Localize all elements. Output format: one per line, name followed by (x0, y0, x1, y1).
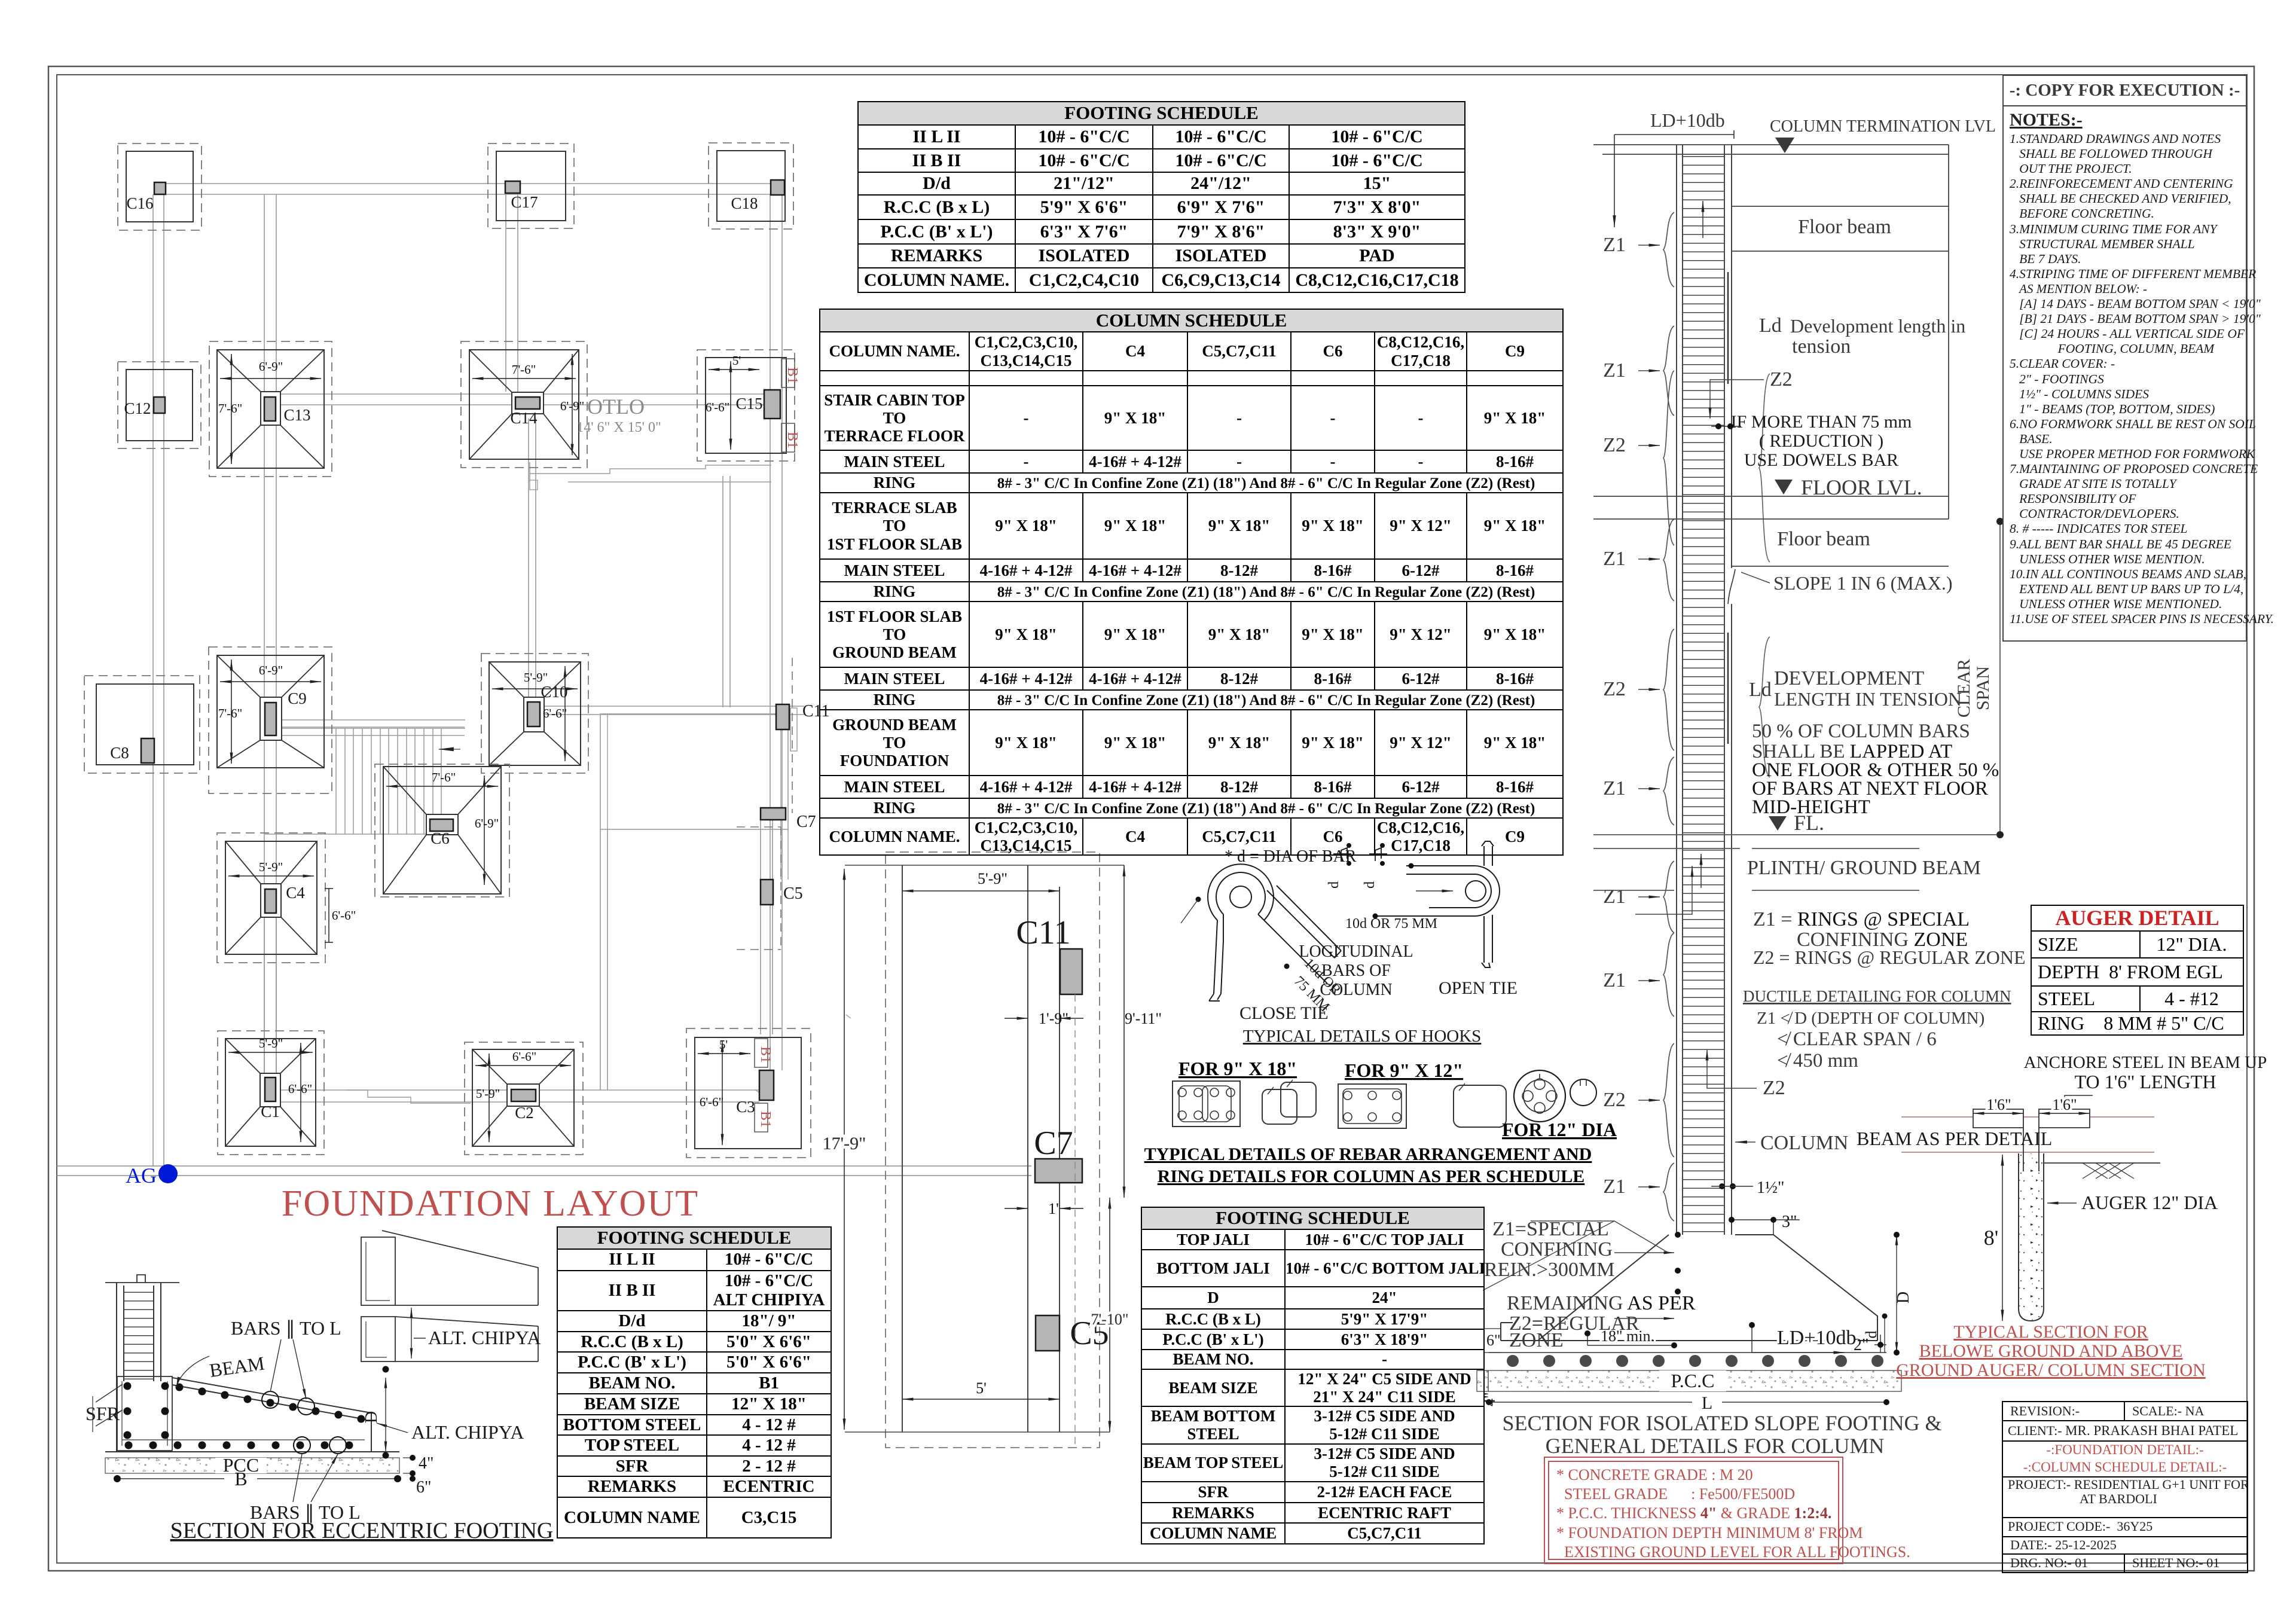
Ld development length upper (1759, 374, 1770, 562)
svg-text:d: d (1326, 881, 1342, 889)
svg-text:PLINTH/ GROUND BEAM: PLINTH/ GROUND BEAM (1747, 857, 1981, 879)
dim 1ft6 right (2039, 1113, 2090, 1114)
wall right of room below C7 (761, 820, 773, 1034)
svg-text:ANCHORE STEEL IN BEAM UP: ANCHORE STEEL IN BEAM UP (2024, 1053, 2267, 1072)
svg-text:d: d (1362, 881, 1378, 889)
zone brace Z2 (1663, 371, 1674, 545)
typical section for auger red title (1877, 1323, 2224, 1380)
svg-text:D: D (1894, 1292, 1913, 1304)
zone brace Z1 sixth (1663, 861, 1674, 933)
svg-text:P.C.C: P.C.C (1671, 1370, 1715, 1391)
footing C13 (isolated sloped footing plan) (209, 341, 332, 477)
alt chipya wedge detail (361, 1237, 395, 1305)
svg-text:COLUMN: COLUMN (1320, 981, 1392, 999)
footing 3in step dim (1732, 1220, 1800, 1235)
footing schedule table (raft C5,C7,C11) (1141, 1207, 1485, 1544)
svg-text:BEAM AS PER DETAIL: BEAM AS PER DETAIL (1857, 1128, 2052, 1149)
svg-text:FOR 9" X 18": FOR 9" X 18" (1178, 1058, 1297, 1079)
svg-text:Z2: Z2 (1770, 368, 1793, 390)
svg-text:IF MORE THAN 75 mm: IF MORE THAN 75 mm (1731, 412, 1912, 432)
auger pile (2019, 1153, 2044, 1321)
svg-text:Z1 ≮ D (DEPTH OF COLUMN): Z1 ≮ D (DEPTH OF COLUMN) (1757, 1009, 1984, 1028)
raft strip bottom line (845, 1431, 1110, 1433)
beam B1 marks at C3 (755, 1039, 773, 1132)
svg-text:C3: C3 (736, 1098, 755, 1116)
footing C9 (isolated sloped footing plan) (209, 647, 332, 793)
svg-text:Floor beam: Floor beam (1798, 216, 1891, 238)
rebar detail for 12in dia (1514, 1070, 1565, 1122)
svg-text:ZONE: ZONE (1509, 1329, 1564, 1351)
svg-text:Z1 = RINGS @ SPECIAL: Z1 = RINGS @ SPECIAL (1753, 908, 1970, 930)
svg-text:B1: B1 (758, 1046, 773, 1063)
footing C1 (isolated sloped footing plan) (218, 1031, 324, 1155)
svg-text:6'-6": 6'-6" (700, 1095, 723, 1109)
svg-text:C4: C4 (286, 884, 305, 902)
svg-text:6'-9": 6'-9" (259, 359, 283, 374)
wall line top row C16-C17-C18 (165, 184, 770, 194)
FL marker (1769, 816, 1787, 831)
staircase (265, 720, 465, 834)
svg-text:REIN.>300MM: REIN.>300MM (1484, 1259, 1614, 1281)
column elevation rails (1677, 145, 1732, 1235)
svg-text:9'-11": 9'-11" (1125, 1010, 1162, 1027)
dim 5-9 strip top (902, 890, 1060, 892)
floor beam 2 (1732, 566, 1949, 567)
svg-text:Z2: Z2 (1603, 678, 1626, 700)
svg-text:B1: B1 (758, 1111, 773, 1128)
svg-text:1': 1' (1048, 1200, 1059, 1217)
wall line bottom row C1-C2-C3 (276, 1090, 759, 1102)
svg-text:C8: C8 (110, 744, 129, 762)
dim L (1489, 1402, 1886, 1403)
svg-text:7'-6": 7'-6" (218, 706, 242, 721)
svg-text:6'-6": 6'-6" (706, 400, 729, 414)
wall line left column C16-C12-C8 (153, 194, 164, 1166)
wall stub below room right (781, 829, 788, 880)
zone brace Z1 top (1663, 212, 1674, 287)
eccentric beam rect (117, 1376, 172, 1451)
svg-text:4": 4" (419, 1454, 433, 1473)
wall below C15 (723, 476, 730, 707)
dim 18in min (1587, 1333, 1674, 1345)
floor line 2 (1593, 496, 1949, 519)
footing C8 (pad footing plan) (84, 676, 200, 773)
svg-text:ALT. CHIPYA: ALT. CHIPYA (411, 1421, 524, 1443)
strip dashed inner vertical (1074, 994, 1076, 1448)
svg-text:C7: C7 (1034, 1125, 1073, 1162)
eccentric pcc band (105, 1458, 399, 1473)
eccentric dims right (385, 1378, 386, 1452)
svg-text:6'-9": 6'-9" (475, 816, 499, 831)
pcc band isolated (1477, 1370, 1901, 1391)
stair direction arrow (439, 749, 460, 750)
svg-text:FOR 12" DIA: FOR 12" DIA (1502, 1119, 1617, 1140)
svg-text:Z2: Z2 (1603, 434, 1626, 456)
column C5 in strip (1036, 1315, 1060, 1351)
svg-text:C12: C12 (124, 399, 151, 417)
zone brace Z1 fifth (1663, 757, 1674, 825)
wall line C13 column vertical (264, 194, 276, 1076)
dim D right (1896, 1235, 1897, 1353)
zone brace Z2 fourth (1663, 629, 1674, 750)
svg-text:Z2: Z2 (1603, 1089, 1626, 1111)
svg-text:SECTION FOR ECCENTRIC FOOTING: SECTION FOR ECCENTRIC FOOTING (170, 1518, 554, 1543)
svg-text:USE DOWELS BAR: USE DOWELS BAR (1744, 450, 1898, 470)
svg-text:C16: C16 (126, 194, 153, 212)
beam B1 marks at C15 (781, 359, 800, 452)
auger bars (2023, 1128, 2039, 1171)
svg-text:5': 5' (719, 1037, 728, 1052)
floor lvl marker (1775, 480, 1793, 494)
footing C2 (isolated sloped footing plan) (465, 1042, 583, 1155)
svg-text:3": 3" (1782, 1213, 1797, 1231)
svg-text:C15: C15 (735, 395, 762, 413)
svg-text:DUCTILE DETAILING FOR COLUMN: DUCTILE DETAILING FOR COLUMN (1743, 987, 2011, 1005)
svg-text:7'-10": 7'-10" (1091, 1311, 1129, 1328)
svg-text:14' 6" X 15' 0": 14' 6" X 15' 0" (576, 420, 661, 435)
footing schedule table (eccentric C3,C15) (557, 1226, 832, 1538)
svg-text:Development length in: Development length in (1790, 315, 1965, 337)
svg-text:C14: C14 (510, 409, 538, 427)
svg-text:8': 8' (1984, 1226, 1999, 1250)
beam red line upper (1901, 1116, 2154, 1118)
svg-text:Z1: Z1 (1603, 359, 1626, 381)
svg-text:≮ 450 mm: ≮ 450 mm (1777, 1050, 1858, 1072)
rebar arrangement 9x18 section (1173, 1081, 1240, 1127)
close tie detail (1181, 864, 1341, 1001)
footing rebar dots (1507, 1355, 1883, 1367)
footing C18 (pad footing plan) (709, 143, 793, 229)
svg-text:BARS OF: BARS OF (1321, 961, 1391, 980)
beam red line lower (1901, 1152, 2154, 1153)
svg-text:Ld: Ld (1759, 315, 1782, 337)
svg-text:LOGITUDINAL: LOGITUDINAL (1299, 942, 1413, 961)
footing C4 (isolated sloped footing plan) (217, 833, 325, 963)
svg-text:REMAINING AS PER: REMAINING AS PER (1507, 1292, 1696, 1314)
svg-text:AUGER 12" DIA: AUGER 12" DIA (2081, 1192, 2218, 1213)
plinth lines (1593, 835, 1997, 890)
zone brace Z1 third (1663, 519, 1674, 601)
svg-text:CLOSE TIE: CLOSE TIE (1239, 1003, 1329, 1023)
svg-text:C18: C18 (731, 194, 758, 212)
svg-text:TO 1'6" LENGTH: TO 1'6" LENGTH (2075, 1071, 2216, 1092)
svg-text:10d OR 75 MM: 10d OR 75 MM (1345, 916, 1437, 932)
Ld development length lower (1759, 637, 1770, 777)
wall C4 to C1 vertical (264, 915, 276, 1076)
zone brace Z1 seventh (1663, 933, 1674, 1016)
svg-text:7'-6": 7'-6" (512, 362, 536, 377)
footing C12 (pad footing plan) (118, 362, 201, 448)
svg-text:COLUMN TERMINATION LVL: COLUMN TERMINATION LVL (1770, 117, 1996, 136)
foundation layout title (102, 1183, 879, 1225)
svg-text:GENERAL DETAILS FOR COLUMN: GENERAL DETAILS FOR COLUMN (1546, 1434, 1885, 1458)
eccentric wall column (117, 1283, 161, 1452)
column elevation rungs (1683, 148, 1724, 1235)
svg-text:RING DETAILS FOR COLUMN AS PER: RING DETAILS FOR COLUMN AS PER SCHEDULE (1158, 1167, 1585, 1186)
svg-text:CLEAR: CLEAR (1954, 659, 1974, 718)
svg-text:5': 5' (976, 1379, 987, 1397)
svg-text:Z1: Z1 (1603, 777, 1626, 799)
svg-text:C13: C13 (283, 406, 310, 424)
column C5 on plan (761, 880, 803, 905)
ring single 9x12 (1454, 1085, 1506, 1127)
column termination level lines (1593, 145, 1949, 154)
slope label (1728, 569, 1735, 604)
wall jog below C14 row (530, 462, 771, 482)
svg-text:C10: C10 (541, 683, 567, 701)
raft strip dashed outline (886, 852, 1100, 1448)
column C7 in strip (1035, 1159, 1082, 1183)
dim 8ft (2002, 1155, 2003, 1321)
C4 side dim 6-6 (328, 889, 329, 942)
svg-text:6'-9": 6'-9" (560, 399, 584, 413)
footing C14 (isolated sloped footing plan) (461, 341, 587, 468)
eccentric footing rebar dots (124, 1382, 365, 1449)
svg-text:5'-9": 5'-9" (476, 1086, 500, 1101)
wall line C13-C14-C15 row (276, 394, 764, 405)
eccentric dim B (117, 1478, 398, 1479)
column C7 on plan (761, 808, 816, 831)
footing C16 (pad footing plan) (118, 144, 201, 230)
svg-text:6": 6" (1486, 1332, 1501, 1349)
dim d right (1884, 1316, 1885, 1353)
footing C3 (pad footing plan) (686, 1028, 811, 1158)
svg-text:50 % OF COLUMN BARS: 50 % OF COLUMN BARS (1752, 721, 1970, 742)
svg-text:Z1: Z1 (1603, 548, 1626, 570)
column C11 on plan (776, 702, 830, 729)
svg-text:FLOOR LVL.: FLOOR LVL. (1801, 475, 1922, 499)
room outline right of C10 (600, 714, 788, 829)
svg-text:C7: C7 (796, 813, 816, 831)
raft strip top line (845, 865, 1124, 866)
svg-text:Z2 = RINGS @ REGULAR ZONE: Z2 = RINGS @ REGULAR ZONE (1753, 947, 2026, 968)
svg-text:TYPICAL DETAILS OF REBAR ARRAN: TYPICAL DETAILS OF REBAR ARRANGEMENT AND (1144, 1144, 1592, 1164)
svg-text:17'-9": 17'-9" (823, 1134, 866, 1153)
dim 1-9 (1004, 1018, 1028, 1019)
svg-text:TYPICAL DETAILS OF HOOKS: TYPICAL DETAILS OF HOOKS (1243, 1027, 1482, 1046)
copy for execution / notes box (2002, 75, 2247, 642)
svg-text:L: L (1702, 1393, 1712, 1413)
svg-text:tension: tension (1792, 335, 1851, 358)
svg-text:Z1: Z1 (1603, 234, 1626, 256)
footing C6 (isolated sloped footing plan) (375, 764, 509, 897)
svg-text:SLOPE 1 IN 6 (MAX.): SLOPE 1 IN 6 (MAX.) (1773, 572, 1953, 594)
wall jog C1-C2 (347, 1090, 471, 1103)
wall line C9 to stairs (277, 727, 465, 735)
svg-text:DEVELOPMENT: DEVELOPMENT (1774, 667, 1924, 689)
site boundary bottom lines (57, 1166, 1031, 1176)
svg-text:D: D (362, 1411, 381, 1423)
svg-text:SPAN: SPAN (1973, 666, 1993, 710)
wall step marks (755, 719, 851, 1094)
svg-text:FL.: FL. (1794, 811, 1824, 835)
svg-text:LD+10db: LD+10db (1777, 1327, 1857, 1349)
wall line C14 down (529, 419, 536, 728)
svg-text:6'-6": 6'-6" (512, 1049, 536, 1064)
eccentric footing slope (172, 1378, 371, 1452)
svg-text:Floor beam: Floor beam (1777, 528, 1870, 550)
svg-text:7'-6": 7'-6" (432, 770, 456, 784)
footing bottom bars (1501, 1323, 1877, 1341)
svg-text:LD+10db: LD+10db (1650, 109, 1725, 131)
zone brace Z1 ninth (1663, 1163, 1674, 1221)
open tie detail (1375, 841, 1500, 967)
rings pair 9x18 (1262, 1089, 1297, 1124)
svg-text:B: B (234, 1468, 247, 1489)
svg-text:OPEN TIE: OPEN TIE (1439, 978, 1518, 998)
svg-text:C5: C5 (783, 884, 803, 903)
title block (2002, 1401, 2248, 1573)
svg-text:5'-9": 5'-9" (978, 870, 1007, 887)
cover dim 1.5in (1719, 1183, 1725, 1189)
svg-text:OTLO: OTLO (587, 395, 645, 419)
svg-text:C17: C17 (511, 193, 538, 211)
svg-text:B1: B1 (784, 367, 800, 384)
svg-text:6'-6": 6'-6" (332, 908, 356, 923)
hook end symbols with d labels (1333, 848, 1387, 861)
svg-text:SFR: SFR (86, 1403, 120, 1424)
leader diagonal to rein (1483, 1221, 1614, 1290)
svg-text:SECTION FOR ISOLATED SLOPE FOO: SECTION FOR ISOLATED SLOPE FOOTING & (1502, 1411, 1941, 1435)
zone brace Z1 second (1663, 326, 1674, 416)
svg-text:Z1: Z1 (1603, 886, 1626, 908)
svg-text:Z1: Z1 (1603, 1176, 1626, 1198)
svg-text:Ld: Ld (1749, 679, 1772, 701)
ground line + hatch (2044, 1162, 2160, 1164)
rung pointer arrows (1702, 201, 1703, 238)
svg-text:6'-6": 6'-6" (288, 1082, 312, 1096)
svg-text:COLUMN: COLUMN (1760, 1132, 1848, 1154)
svg-text:1'-9": 1'-9" (1039, 1010, 1068, 1027)
svg-text:C9: C9 (288, 689, 307, 707)
svg-text:6'-6": 6'-6" (543, 706, 567, 721)
svg-text:7'-6": 7'-6" (218, 401, 242, 416)
wall line right column C18-C15-C3 (770, 194, 782, 1070)
wall below room (600, 829, 607, 1090)
svg-text:1'6": 1'6" (1986, 1096, 2011, 1113)
red concrete notes box (1544, 1457, 1843, 1564)
dim 9-11 vertical (1123, 865, 1125, 1198)
svg-text:6": 6" (416, 1478, 431, 1497)
svg-text:C6: C6 (430, 829, 450, 847)
svg-text:( REDUCTION ): ( REDUCTION ) (1759, 431, 1883, 451)
dim 17-9 vertical (844, 869, 845, 1430)
svg-text:CONFINING: CONFINING (1501, 1238, 1613, 1260)
footing C15 (pad footing plan) (697, 350, 795, 461)
svg-text:1½": 1½" (1757, 1179, 1784, 1197)
svg-text:C11: C11 (1016, 914, 1070, 951)
dim 7-10 vertical (1109, 1198, 1110, 1432)
dim 1ft6 left (1973, 1113, 2023, 1114)
beam outline below C11 (790, 708, 797, 751)
rebar arrangement 9x12 section (1338, 1084, 1406, 1128)
svg-text:LENGTH IN TENSION: LENGTH IN TENSION (1774, 688, 1962, 710)
svg-text:C2: C2 (515, 1104, 534, 1122)
svg-text:Z2: Z2 (1763, 1077, 1785, 1099)
column schedule table (819, 309, 1564, 856)
footing schedule table (top) (857, 101, 1465, 293)
floor beam 1 (1732, 145, 1949, 519)
svg-text:5'-9": 5'-9" (259, 1036, 283, 1051)
svg-text:BARS ∥ TO L: BARS ∥ TO L (231, 1317, 341, 1339)
column lap bar (1727, 272, 1729, 744)
svg-text:5': 5' (732, 353, 741, 368)
dashed zone around C5/C7 (737, 658, 792, 950)
svg-text:Z1: Z1 (1603, 969, 1626, 991)
auger detail table (2031, 905, 2244, 1036)
dim 5ft bottom (902, 1399, 1060, 1400)
svg-text:1'6": 1'6" (2052, 1096, 2077, 1113)
svg-text:≮ CLEAR SPAN / 6: ≮ CLEAR SPAN / 6 (1777, 1028, 1937, 1050)
Z1 arrow up into plinth (1635, 866, 1692, 914)
svg-text:FOR 9" X 12": FOR 9" X 12" (1345, 1060, 1463, 1081)
footing C17 (pad footing plan) (488, 144, 574, 228)
column C11 in strip (1060, 949, 1082, 994)
svg-text:6'-9": 6'-9" (259, 663, 283, 677)
svg-text:B1: B1 (784, 432, 800, 448)
wall line C10 to right (540, 706, 804, 715)
zone brace Z2 eighth (1663, 1043, 1674, 1157)
footing C10 (isolated sloped footing plan) (481, 654, 588, 773)
svg-text:5'-9": 5'-9" (259, 860, 283, 874)
svg-text:ALT. CHIPYA: ALT. CHIPYA (428, 1327, 541, 1348)
beam blocks (1973, 1109, 2090, 1128)
isolated footing outline (1538, 1235, 1877, 1341)
footing bottom line (1489, 1352, 1886, 1353)
svg-text:BEAM: BEAM (208, 1352, 266, 1381)
dim 1ft (1004, 1208, 1028, 1209)
wall line C17 down to C14 (506, 194, 518, 392)
raft strip edges (902, 865, 1060, 1432)
svg-text:C1: C1 (261, 1103, 280, 1121)
